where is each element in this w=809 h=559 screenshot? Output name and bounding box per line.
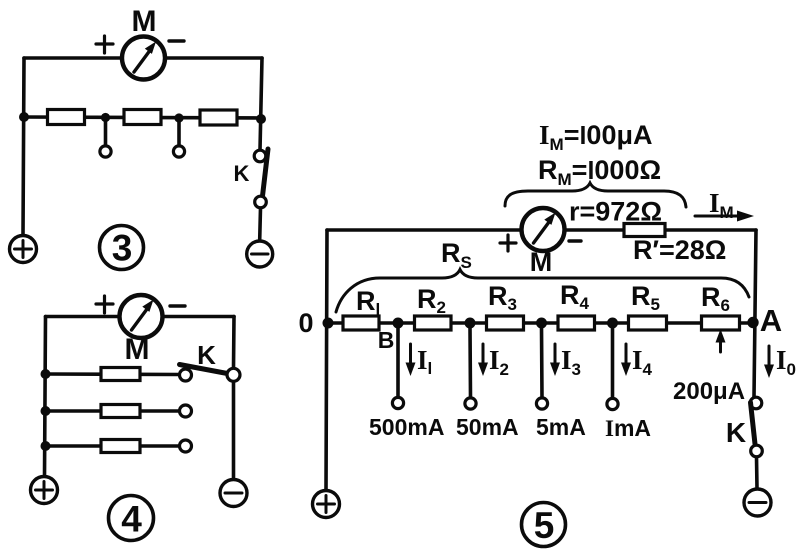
switch K blade (circuit 5) — [751, 403, 756, 445]
switch K contact bottom (circuit 5) — [751, 445, 763, 457]
arrow I2 (down) — [478, 344, 488, 376]
wire top-right horizontal (circuit 3) — [166, 56, 262, 60]
tap contact 2 (circuit 3) — [173, 146, 184, 157]
wire left vertical (circuit 3) — [23, 58, 24, 235]
svg-text:B: B — [378, 327, 395, 353]
svg-text:A: A — [760, 303, 782, 338]
junction node row 2 (circuit 4) — [41, 406, 51, 416]
svg-text:K: K — [197, 340, 216, 370]
resistor (circuit 3, middle) — [124, 110, 161, 125]
junction node (circuit 3 row, tap 1) — [101, 113, 110, 122]
label + polarity (circuit 3 meter) — [96, 36, 113, 53]
wire resistor row (circuit 3) — [24, 117, 262, 118]
wire right vertical upper (circuit 5) — [754, 230, 756, 397]
arrow I3 (down) — [550, 344, 560, 376]
terminal + (circuit 4) — [31, 477, 58, 504]
label - polarity (circuit 4 meter) — [170, 304, 185, 307]
wire switch to minus terminal (circuit 5) — [755, 457, 759, 489]
switch K contact top (circuit 5) — [750, 397, 762, 409]
switch K blade (circuit 3) — [263, 149, 269, 196]
wire right vertical upper (circuit 4) — [232, 317, 236, 369]
svg-text:M: M — [125, 333, 150, 366]
junction node B (circuit 5) — [393, 318, 404, 329]
junction node (circuit 3 row, far right) — [256, 114, 266, 124]
wire meter left (circuit 4) — [46, 315, 120, 319]
junction node row 1 (circuit 4) — [41, 369, 51, 379]
junction node tap3 (circuit 5) — [536, 318, 547, 329]
svg-text:ImA: ImA — [605, 415, 651, 441]
junction node row 3 (circuit 4) — [41, 441, 51, 451]
tap wire 2 (circuit 5) — [468, 327, 472, 398]
meter U-M5 — [522, 208, 565, 251]
resistor (circuit 4, row 2) — [101, 405, 140, 418]
contact row 1 (circuit 4) — [180, 369, 192, 381]
label + polarity (circuit 5 meter) — [500, 235, 516, 251]
junction node 0 (circuit 5) — [323, 318, 334, 329]
svg-text:0: 0 — [298, 308, 313, 338]
svg-text:4: 4 — [121, 499, 142, 540]
terminal + (circuit 3) — [10, 236, 37, 263]
tap wire B (circuit 5) — [396, 327, 400, 397]
tap wire 2 (circuit 3) — [177, 121, 181, 146]
resistor R1 — [343, 316, 379, 330]
svg-text:M: M — [530, 247, 553, 277]
tap wire 1 (circuit 3) — [104, 121, 108, 146]
arrow I1 (down) — [406, 344, 416, 376]
tap wire 3 (circuit 5) — [540, 327, 544, 398]
tap wire 4 (circuit 5) — [611, 327, 615, 399]
junction node (circuit 3 row, tap 2) — [174, 113, 183, 122]
resistor R6 — [702, 316, 740, 330]
figure number 4 — [109, 496, 154, 541]
terminal - (circuit 4) — [220, 480, 247, 507]
wire resistor row (circuit 5) — [327, 321, 753, 325]
arrow I4 (down) — [621, 344, 631, 376]
wire left vertical (circuit 5) — [326, 230, 327, 491]
svg-text:M: M — [132, 5, 157, 38]
label + polarity (circuit 4 meter) — [96, 296, 113, 313]
resistor R' — [624, 224, 665, 237]
tap contact 1 (circuit 3) — [100, 146, 111, 157]
wire row 2 (circuit 4) — [46, 409, 180, 413]
tap contact 500mA — [392, 397, 403, 408]
resistor R4 — [558, 316, 595, 330]
resistor R3 — [487, 316, 524, 330]
svg-text:K: K — [234, 161, 250, 186]
tap contact 5mA — [536, 398, 547, 409]
tap contact 50mA — [465, 398, 476, 409]
wire top-left horizontal (circuit 3) — [24, 56, 121, 60]
brace over R1..R6 (RS) — [336, 270, 749, 313]
svg-text:5mA: 5mA — [536, 414, 586, 440]
wire right vertical (circuit 3) — [260, 58, 262, 150]
resistor (circuit 3, right) — [200, 110, 237, 125]
resistor R2 — [415, 316, 452, 330]
tap contact 1mA — [607, 398, 618, 409]
contact row 2 (circuit 4) — [180, 405, 192, 417]
resistor (circuit 4, row 1) — [101, 368, 140, 381]
resistor (circuit 4, row 3) — [101, 440, 140, 453]
svg-text:RM=l000Ω: RM=l000Ω — [538, 155, 661, 189]
wire right vertical lower (circuit 4) — [232, 382, 236, 480]
wire meter right (circuit 4) — [163, 315, 235, 319]
arrow IM (points right) — [695, 211, 754, 222]
terminal - (circuit 5) — [744, 489, 771, 516]
arrow 200uA tap (points up at R6) — [716, 329, 726, 352]
wire row 3 (circuit 4) — [46, 444, 180, 448]
svg-text:200μA: 200μA — [673, 378, 745, 405]
switch K contact bottom (circuit 3) — [255, 196, 267, 208]
junction node tap2 (circuit 5) — [465, 318, 476, 329]
brace over meter and R' — [505, 183, 686, 207]
switch K common contact (circuit 4) — [227, 368, 240, 381]
meter U-M3 — [122, 37, 165, 80]
svg-text:500mA: 500mA — [369, 414, 444, 440]
svg-text:R′=28Ω: R′=28Ω — [633, 235, 726, 265]
junction node A (circuit 5) — [747, 317, 758, 328]
switch K contact top (circuit 3) — [254, 150, 266, 162]
label - polarity (circuit 5 meter) — [569, 239, 581, 242]
wire left vertical (circuit 4) — [45, 317, 46, 477]
svg-text:50mA: 50mA — [456, 414, 519, 440]
svg-text:5: 5 — [534, 505, 555, 546]
terminal - (circuit 3) — [247, 241, 273, 267]
figure number 3 — [100, 226, 144, 270]
resistor (circuit 3, left) — [48, 110, 85, 125]
wire top horizontal (circuit 5) — [327, 228, 756, 232]
meter U-M4 — [120, 295, 163, 338]
contact row 3 (circuit 4) — [180, 440, 192, 452]
label - polarity (circuit 3 meter) — [169, 39, 184, 42]
wire row 1 (circuit 4) — [46, 372, 180, 376]
resistor R5 — [629, 316, 667, 330]
svg-text:K: K — [726, 417, 746, 448]
arrow I0 (down) — [764, 346, 774, 378]
switch K blade (circuit 4) — [180, 365, 231, 375]
figure number 5 — [522, 503, 566, 547]
junction node (circuit 3 row, far left) — [19, 112, 29, 122]
terminal + (circuit 5) — [313, 491, 340, 518]
junction node tap4 (circuit 5) — [607, 318, 618, 329]
svg-text:3: 3 — [112, 228, 133, 269]
wire switch to minus terminal (circuit 3) — [258, 208, 262, 240]
